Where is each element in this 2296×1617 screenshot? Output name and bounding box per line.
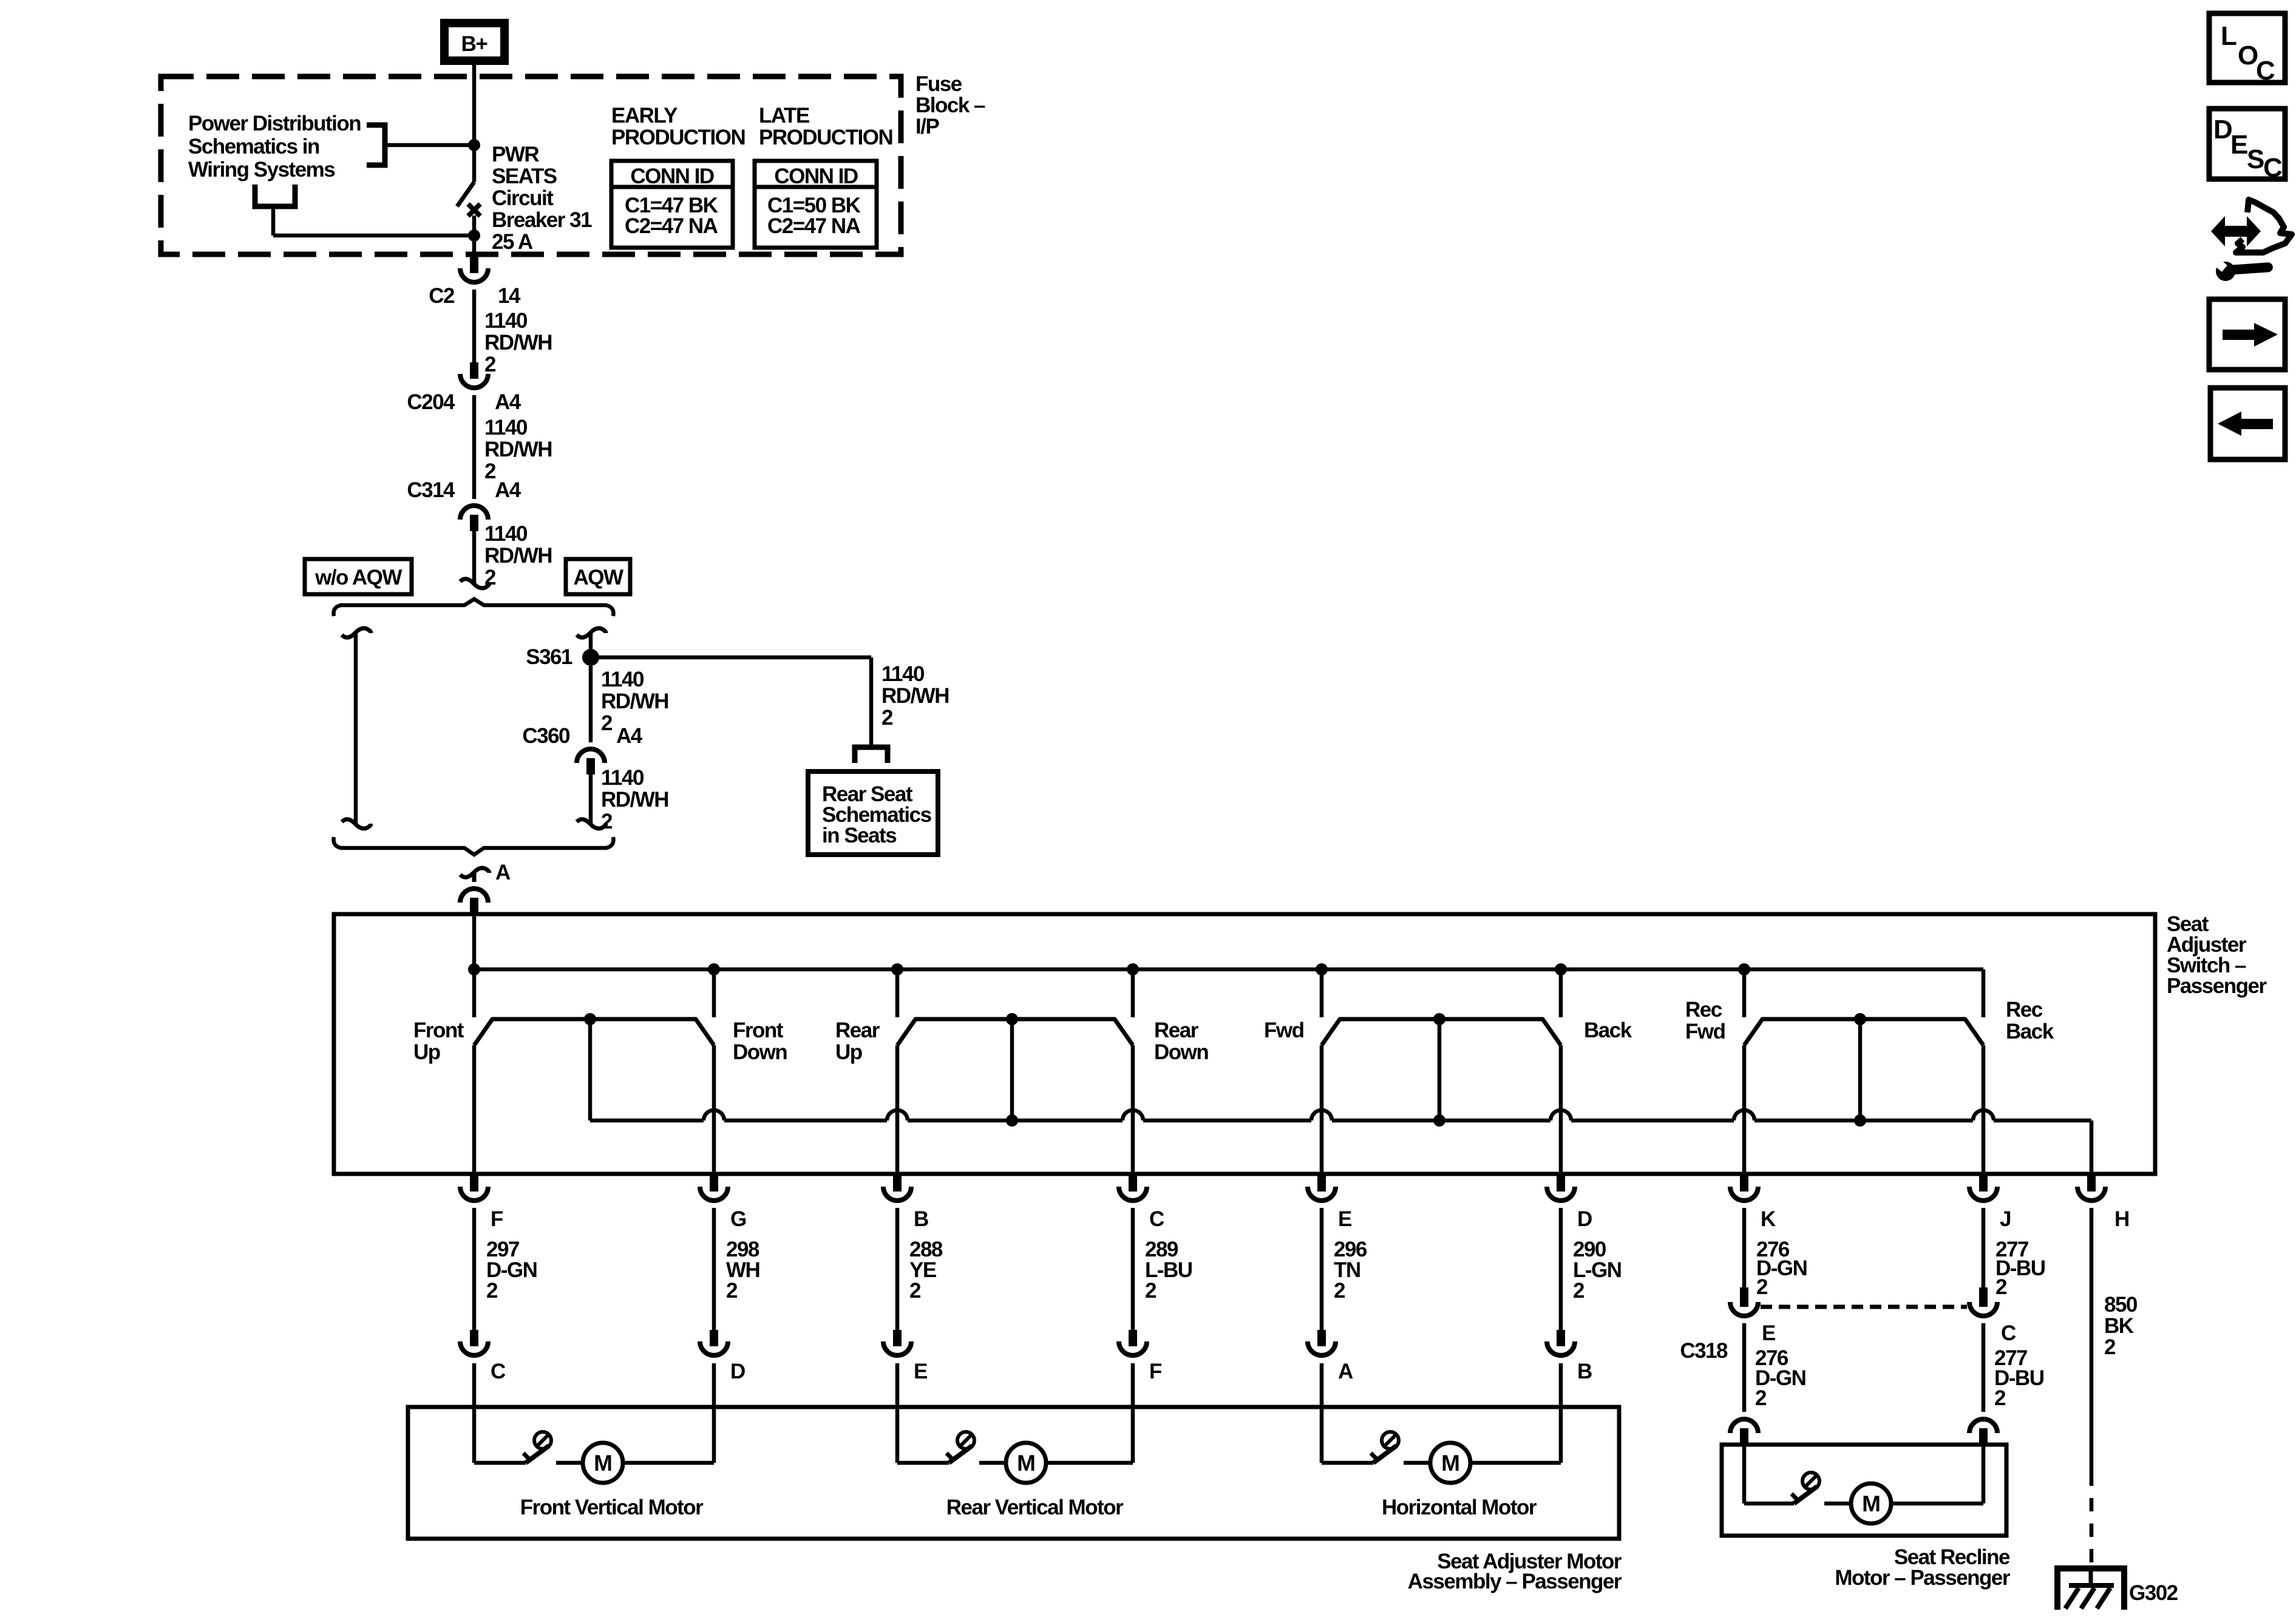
- svg-text:Horizontal Motor: Horizontal Motor: [1382, 1496, 1537, 1519]
- svg-text:M: M: [1441, 1451, 1459, 1476]
- svg-text:AQW: AQW: [573, 566, 623, 589]
- svg-text:K: K: [1761, 1207, 1776, 1231]
- switch feed bus: [474, 968, 1983, 972]
- motor assembly connector pin D: [710, 1330, 718, 1346]
- icon box DESC: [2209, 109, 2285, 179]
- switch output wire right front vertical: [712, 1045, 716, 1174]
- svg-text:C318: C318: [1680, 1339, 1728, 1363]
- switch contacts rear vertical group: [897, 1019, 1133, 1045]
- C318 dashed connector line: [1761, 1305, 1967, 1309]
- wires recline motor circuit: [1742, 1445, 1747, 1503]
- svg-text:EARLY: EARLY: [611, 104, 678, 127]
- svg-text:2: 2: [1756, 1275, 1768, 1299]
- switch center tap rear vertical: [1010, 1019, 1014, 1120]
- connector C204 pin A4: [470, 362, 478, 379]
- late production CONN ID table: [755, 161, 877, 248]
- fuse block dashed boundary: [161, 76, 901, 254]
- svg-text:Power Distribution: Power Distribution: [188, 112, 361, 135]
- svg-text:Up: Up: [835, 1040, 862, 1064]
- wire C2 to C204: [472, 290, 477, 362]
- fork into rear seat schematics box: [855, 747, 888, 763]
- svg-text:S: S: [2247, 144, 2264, 174]
- ground G302: [2057, 1568, 2124, 1610]
- svg-text:C2: C2: [429, 284, 455, 308]
- icon box back arrow: [2210, 388, 2285, 459]
- switch center tap recline: [1858, 1019, 1863, 1120]
- lower option brace: [340, 848, 607, 855]
- svg-text:Up: Up: [413, 1040, 440, 1064]
- svg-text:C: C: [2263, 153, 2282, 183]
- svg-text:C2=47 NA: C2=47 NA: [767, 214, 861, 238]
- svg-text:Motor – Passenger: Motor – Passenger: [1835, 1566, 2011, 1590]
- switch center tap front vertical: [588, 1019, 593, 1120]
- wire C360 to lower brace: [589, 775, 593, 824]
- svg-text:Front Vertical Motor: Front Vertical Motor: [520, 1496, 704, 1519]
- svg-text:1140: 1140: [484, 416, 528, 439]
- wire pin into motor connector x1478: [895, 1208, 900, 1330]
- svg-text:Down: Down: [733, 1040, 787, 1064]
- seat adjuster motor assembly box: [408, 1407, 1619, 1539]
- svg-text:PRODUCTION: PRODUCTION: [611, 126, 745, 149]
- wire into motor assembly box x781: [472, 1363, 477, 1407]
- svg-text:M: M: [594, 1451, 612, 1476]
- svg-text:C2=47 NA: C2=47 NA: [625, 214, 718, 238]
- wire AQW branch upper: [577, 628, 606, 637]
- switch pin J connector: [1979, 1175, 1988, 1192]
- svg-text:Circuit: Circuit: [492, 186, 554, 210]
- svg-text:2: 2: [486, 1279, 498, 1303]
- circuit breaker 31 PWR SEATS: [472, 145, 477, 182]
- icon box LOC: [2209, 13, 2285, 83]
- svg-text:D: D: [730, 1360, 745, 1383]
- svg-text:I/P: I/P: [915, 115, 939, 138]
- switch contacts front vertical group: [474, 1019, 714, 1045]
- svg-text:1140: 1140: [881, 662, 925, 686]
- thermal protector Horizontal Motor: [1373, 1446, 1396, 1463]
- svg-text:RD/WH: RD/WH: [484, 438, 552, 461]
- wire into motor assembly box x1478: [895, 1363, 900, 1407]
- svg-text:B: B: [1577, 1360, 1592, 1383]
- wire pin into motor connector x2571: [1559, 1208, 1563, 1330]
- wire into motor assembly box x2571: [1559, 1363, 1563, 1407]
- svg-text:2: 2: [601, 810, 613, 833]
- wire pin H to ground: [2090, 1208, 2094, 1473]
- svg-text:Block –: Block –: [915, 93, 985, 117]
- svg-text:14: 14: [498, 284, 521, 308]
- switch contacts recline group: [1744, 1019, 1983, 1045]
- bus junction dots: [468, 963, 480, 975]
- svg-text:Rear: Rear: [835, 1019, 880, 1042]
- connector C360 pin A4: [586, 758, 595, 775]
- svg-text:E: E: [914, 1360, 927, 1383]
- wire S361 to rear seat schematics: [591, 656, 871, 660]
- wire pin A to bus: [472, 914, 477, 971]
- switch contacts horizontal group: [1322, 1019, 1561, 1045]
- svg-text:C360: C360: [522, 724, 570, 748]
- svg-text:H: H: [2114, 1207, 2129, 1231]
- svg-text:in Seats: in Seats: [822, 824, 897, 847]
- svg-text:RD/WH: RD/WH: [601, 690, 668, 713]
- svg-text:F: F: [491, 1207, 503, 1231]
- svg-text:2: 2: [1145, 1279, 1156, 1303]
- svg-text:w/o AQW: w/o AQW: [314, 566, 402, 589]
- svg-text:PWR: PWR: [492, 143, 539, 166]
- svg-text:Assembly – Passenger: Assembly – Passenger: [1408, 1570, 1622, 1593]
- svg-text:F: F: [1149, 1360, 1162, 1383]
- switch pin G connector: [710, 1175, 718, 1192]
- switch pin C connector: [1129, 1175, 1137, 1192]
- svg-text:2: 2: [1995, 1275, 2007, 1299]
- seat recline motor box: [1722, 1445, 2006, 1536]
- svg-text:Wiring Systems: Wiring Systems: [188, 158, 335, 181]
- switch common return line: [590, 1119, 704, 1123]
- svg-text:SEATS: SEATS: [492, 164, 557, 188]
- svg-text:2: 2: [601, 711, 613, 735]
- svg-text:C: C: [491, 1360, 506, 1383]
- motor assembly connector pin B: [1557, 1330, 1565, 1346]
- svg-text:Rec: Rec: [2006, 998, 2043, 1022]
- svg-text:RD/WH: RD/WH: [881, 684, 949, 708]
- battery feed B+ terminal box: [440, 19, 509, 65]
- wire from bracket to breaker node: [385, 143, 474, 147]
- wire into C318 x3267: [1982, 1208, 1986, 1287]
- switch output wire left front vertical: [472, 1045, 477, 1174]
- svg-text:25 A: 25 A: [492, 230, 533, 254]
- svg-text:Schematics in: Schematics in: [188, 135, 319, 158]
- svg-text:E: E: [2230, 130, 2247, 160]
- svg-text:2: 2: [881, 706, 893, 730]
- recline motor connector x3267: [1979, 1428, 1988, 1445]
- svg-text:Front: Front: [413, 1019, 464, 1042]
- svg-text:850: 850: [2104, 1293, 2138, 1317]
- svg-text:A: A: [1338, 1360, 1353, 1383]
- svg-text:Passenger: Passenger: [2167, 974, 2267, 998]
- wires Rear Vertical Motor circuit: [895, 1407, 900, 1463]
- svg-text:C: C: [1149, 1207, 1164, 1231]
- icon double arrow with wrench: [2211, 216, 2261, 246]
- connector C2 pin 14: [470, 257, 478, 273]
- bus stubs to contacts: [472, 971, 477, 1017]
- svg-text:1140: 1140: [484, 522, 528, 546]
- thermal protector recline motor: [1794, 1486, 1817, 1503]
- switch output wire right horizontal: [1559, 1045, 1563, 1174]
- wire from B+ into fuse block: [472, 65, 477, 145]
- svg-text:J: J: [2000, 1207, 2011, 1231]
- motor assembly connector pin E: [893, 1330, 902, 1346]
- svg-text:LATE: LATE: [759, 104, 809, 127]
- svg-text:G: G: [730, 1207, 746, 1231]
- wire pin into motor connector x781: [472, 1208, 477, 1330]
- upper option brace: [340, 599, 607, 605]
- svg-text:E: E: [1762, 1321, 1775, 1345]
- wire C314 to option split: [472, 531, 477, 584]
- motor Front Vertical Motor: [583, 1443, 623, 1483]
- svg-text:RD/WH: RD/WH: [601, 788, 668, 812]
- connector C318 pin E: [1740, 1287, 1748, 1307]
- thermal protector Front Vertical Motor: [526, 1446, 549, 1463]
- switch pin K connector: [1740, 1175, 1748, 1192]
- switch center tap horizontal: [1438, 1019, 1442, 1120]
- svg-text:Rear: Rear: [1154, 1019, 1199, 1042]
- wire C318 to recline motor x2873: [1742, 1323, 1747, 1412]
- svg-text:CONN ID: CONN ID: [774, 164, 858, 188]
- switch output wire left recline: [1742, 1045, 1747, 1174]
- svg-text:2: 2: [1334, 1279, 1345, 1303]
- early production CONN ID table: [611, 161, 733, 248]
- svg-text:RD/WH: RD/WH: [484, 544, 552, 568]
- svg-text:L: L: [2221, 21, 2237, 51]
- svg-text:A4: A4: [616, 724, 643, 748]
- svg-text:M: M: [1862, 1491, 1880, 1516]
- svg-text:B: B: [914, 1207, 928, 1231]
- svg-text:C204: C204: [407, 390, 455, 414]
- svg-text:M: M: [1017, 1451, 1035, 1476]
- connector pin A into switch: [460, 868, 489, 877]
- svg-text:A4: A4: [495, 390, 521, 414]
- switch pin B connector: [893, 1175, 902, 1192]
- wire pin into motor connector x2177: [1320, 1208, 1324, 1330]
- svg-text:1140: 1140: [601, 668, 644, 691]
- svg-text:Fwd: Fwd: [1685, 1020, 1725, 1043]
- bracket lower power distribution tap: [255, 185, 295, 206]
- connector C318 pin C: [1979, 1287, 1988, 1307]
- switch pin H connector: [2087, 1175, 2096, 1192]
- motor assembly connector pin C: [470, 1330, 478, 1346]
- bracket to power distribution schematic: [367, 125, 385, 165]
- svg-text:G302: G302: [2129, 1581, 2178, 1605]
- svg-text:BK: BK: [2104, 1314, 2134, 1338]
- svg-text:B+: B+: [461, 32, 488, 56]
- switch output wire right recline: [1982, 1045, 1986, 1174]
- wire into C318 x2873: [1742, 1208, 1747, 1287]
- recline motor connector x2873: [1740, 1428, 1748, 1445]
- switch pin D connector: [1557, 1175, 1565, 1192]
- svg-text:C314: C314: [407, 478, 455, 502]
- wire pin into motor connector x1866: [1131, 1208, 1135, 1330]
- switch pin E connector: [1317, 1175, 1326, 1192]
- rear seat schematics box: [808, 771, 938, 855]
- svg-text:D: D: [2213, 115, 2232, 144]
- wire into motor assembly box x1176: [712, 1363, 716, 1407]
- svg-text:Breaker 31: Breaker 31: [492, 208, 592, 232]
- svg-text:Back: Back: [1584, 1019, 1632, 1042]
- node junction below circuit breaker: [468, 229, 480, 242]
- svg-text:A4: A4: [495, 478, 521, 502]
- svg-text:O: O: [2238, 41, 2258, 70]
- splice S361: [582, 649, 599, 666]
- svg-text:2: 2: [2104, 1335, 2116, 1359]
- wires Front Vertical Motor circuit: [472, 1407, 477, 1463]
- switch output wire right rear vertical: [1131, 1045, 1135, 1174]
- switch output wire left horizontal: [1320, 1045, 1324, 1174]
- svg-text:Back: Back: [2006, 1020, 2054, 1043]
- svg-text:2: 2: [1755, 1386, 1767, 1410]
- svg-text:Fwd: Fwd: [1264, 1019, 1304, 1042]
- motor seat recline: [1851, 1483, 1891, 1524]
- motor assembly connector pin A: [1317, 1330, 1326, 1346]
- svg-text:CONN ID: CONN ID: [630, 164, 714, 188]
- svg-text:Down: Down: [1154, 1040, 1208, 1064]
- svg-text:PRODUCTION: PRODUCTION: [759, 126, 892, 149]
- node junction above circuit breaker: [468, 139, 480, 151]
- svg-text:Front: Front: [733, 1019, 784, 1042]
- icon box forward arrow: [2209, 299, 2285, 370]
- motor assembly connector pin F: [1129, 1330, 1137, 1346]
- motor Horizontal Motor: [1430, 1443, 1470, 1483]
- svg-text:E: E: [1338, 1207, 1351, 1231]
- wire C318 to recline motor x3267: [1982, 1323, 1986, 1412]
- svg-text:A: A: [495, 861, 511, 884]
- svg-text:Rear Vertical Motor: Rear Vertical Motor: [946, 1496, 1124, 1519]
- svg-text:1140: 1140: [601, 766, 644, 790]
- switch output wire left rear vertical: [895, 1045, 900, 1174]
- svg-text:S361: S361: [526, 645, 572, 669]
- wire S361 to C360: [589, 666, 593, 742]
- svg-text:D: D: [1577, 1207, 1592, 1231]
- wire into motor assembly box x2177: [1320, 1363, 1324, 1407]
- svg-text:C: C: [2256, 56, 2275, 86]
- svg-text:2: 2: [909, 1279, 921, 1303]
- wire pin into motor connector x1176: [712, 1208, 716, 1330]
- svg-text:Fuse: Fuse: [915, 72, 962, 96]
- thermal protector Rear Vertical Motor: [949, 1446, 972, 1463]
- option box AQW: [566, 559, 630, 594]
- svg-text:2: 2: [1573, 1279, 1584, 1303]
- svg-text:Rec: Rec: [1685, 998, 1722, 1022]
- motor Rear Vertical Motor: [1006, 1443, 1046, 1483]
- svg-text:2: 2: [484, 353, 496, 376]
- wires Horizontal Motor circuit: [1320, 1407, 1324, 1463]
- svg-text:1140: 1140: [484, 309, 528, 333]
- svg-text:RD/WH: RD/WH: [484, 331, 552, 354]
- switch pin F connector: [470, 1175, 478, 1192]
- option box w/o AQW: [305, 559, 412, 594]
- connector C314 pin A4: [470, 515, 478, 531]
- wire w/o AQW branch: [342, 628, 371, 637]
- wire C204 to C314: [472, 395, 477, 499]
- svg-text:C: C: [2001, 1321, 2016, 1345]
- wire into motor assembly box x1866: [1131, 1363, 1135, 1407]
- seat adjuster switch box: [334, 914, 2155, 1174]
- svg-text:2: 2: [726, 1279, 738, 1303]
- wire lower branch inside fuse block: [273, 234, 474, 238]
- svg-text:2: 2: [1994, 1386, 2006, 1410]
- wire breaker output to connector C2: [472, 236, 477, 257]
